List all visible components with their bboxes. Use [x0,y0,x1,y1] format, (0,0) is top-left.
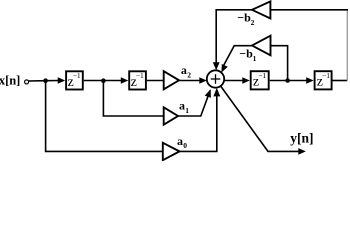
label -b2 [237,11,254,28]
gain triangle a0 [163,143,180,160]
wire a0 to summer [180,92,217,151]
summer node (+) [207,70,224,87]
delay block U3 z^-1 [251,71,269,90]
wire input to delay U1 [29,80,60,83]
svg-text:1: 1 [253,54,257,63]
wire J4 up to -b1 gain [271,46,288,81]
svg-text:1: 1 [185,106,189,115]
wire J1 down to a0 row [46,81,163,152]
svg-text:−b: −b [237,11,251,25]
wire a1 to summer diagonal [178,90,210,116]
arrowhead -b2 into summer [213,62,220,70]
wire right vertical feedback (light) [346,10,348,81]
svg-text:2: 2 [187,70,191,79]
svg-text:2: 2 [251,18,255,27]
wire J2 down to a1 row [103,81,163,116]
svg-text:a: a [179,98,185,112]
gain triangle -b1 [252,36,271,56]
svg-text:−1: −1 [136,71,144,80]
delay block U1 z^-1 [66,71,83,90]
svg-text:−1: −1 [258,71,266,80]
svg-text:a: a [181,63,187,77]
arrowhead a0 into summer [213,88,220,97]
label -b1 [239,46,256,63]
gain triangle -b2 [252,1,270,18]
node J1 junction dot [43,78,48,83]
wire U1 to delay U2 [84,80,123,82]
wire top feedback to -b2 gain [271,9,349,11]
wire U2 to gain a2 [147,80,164,82]
svg-text:a: a [177,134,183,148]
arrowhead a1 into summer [205,89,211,98]
arrowhead into delay U3 [242,77,250,84]
arrowhead into delay U2 [121,77,129,84]
wire a2 to summer [179,80,201,82]
delay block U4 z^-1 [315,71,332,90]
delay block U2 z^-1 [129,71,146,90]
svg-text:x[n]: x[n] [0,73,20,87]
svg-text:−1: −1 [73,71,81,80]
svg-text:−b: −b [239,46,253,60]
svg-text:−1: −1 [322,71,330,80]
arrowhead output y[n] [298,148,306,155]
node J4 junction dot [285,78,290,83]
wire U3 to delay U4 [270,80,309,82]
wire summer to delay U3 [224,80,245,82]
node J2 junction dot [101,78,106,83]
arrowhead -b1 into summer [221,64,227,73]
svg-text:0: 0 [183,141,187,150]
gain triangle a2 [164,71,179,89]
input terminal circle [25,80,29,84]
arrowhead into delay U1 [58,77,65,84]
wire -b1 to summer diagonal [223,46,252,67]
label a2 [181,63,191,79]
label a1 [179,98,189,114]
wire summer to output y[n] [221,86,300,151]
label a0 [177,134,187,150]
wire -b2 to summer top [216,10,252,66]
gain triangle a1 [164,107,178,124]
arrowhead into delay U4 [306,77,314,84]
wire U4 output to right corner [332,80,347,82]
arrowhead a2 into summer [199,77,207,84]
svg-text:y[n]: y[n] [290,130,313,145]
